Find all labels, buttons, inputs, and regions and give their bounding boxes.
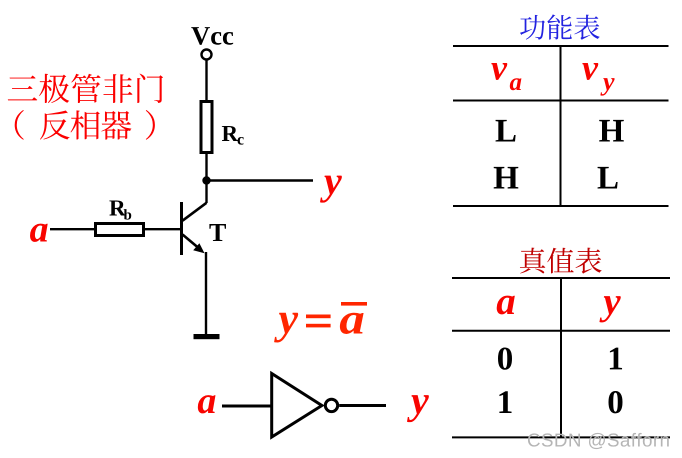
wire Vcc to Rc xyxy=(205,61,207,103)
function table title 功能表 xyxy=(520,14,600,40)
header v_y xyxy=(582,63,598,80)
Vcc power label xyxy=(191,27,233,45)
cell L (row2 col2) xyxy=(598,167,618,189)
function table top rule xyxy=(453,45,669,47)
cell H (row2 col1) xyxy=(494,167,519,189)
truth table bottom rule xyxy=(452,436,670,438)
inverter gate U1: bubble xyxy=(325,399,337,411)
function table column rule xyxy=(560,46,562,206)
cell 1 (row1 col2) xyxy=(610,348,622,370)
Vcc terminal circle xyxy=(202,50,212,60)
resistor Rc xyxy=(201,102,212,153)
caption line 1: 三极管非门 xyxy=(8,74,163,103)
label Rb xyxy=(109,200,125,215)
function table header rule xyxy=(453,100,669,102)
resistor Rb xyxy=(96,224,144,236)
label Rc xyxy=(222,126,238,141)
wire Rc to collector xyxy=(205,153,207,204)
label a (circuit input) xyxy=(30,224,48,242)
label y (gate output) xyxy=(407,395,429,422)
truth table column rule xyxy=(560,278,562,437)
function table bottom rule xyxy=(453,205,669,207)
label y (circuit output) xyxy=(320,176,342,203)
truth table header rule xyxy=(452,330,670,332)
header y xyxy=(599,296,620,322)
transistor T: emitter stroke xyxy=(183,235,199,248)
cell 0 (row2 col2) xyxy=(609,391,623,413)
caption line 2: （反相器） xyxy=(15,110,155,140)
wire gate input xyxy=(222,405,272,408)
header v_a xyxy=(491,63,507,80)
formula y = a-bar xyxy=(274,302,367,342)
watermark xyxy=(528,433,669,449)
truth table title 真值表 xyxy=(520,248,602,274)
label T xyxy=(209,224,226,241)
wire emitter to ground xyxy=(205,252,207,335)
label a (gate input) xyxy=(198,395,216,413)
header a xyxy=(497,296,515,315)
transistor T: emitter arrowhead xyxy=(193,243,204,253)
inverter gate U1: triangle xyxy=(272,374,322,438)
node: collector junction xyxy=(202,176,210,184)
cell 1 (row2 col1) xyxy=(499,391,511,413)
wire gate output xyxy=(339,404,386,407)
transistor T: collector stroke xyxy=(183,203,207,221)
truth table top rule xyxy=(452,277,670,279)
transistor T: base bar xyxy=(180,202,183,255)
cell H (row1 col2) xyxy=(599,120,624,142)
wire base input xyxy=(50,228,182,230)
wire node to output y xyxy=(207,179,314,181)
ground xyxy=(194,334,220,339)
cell L (row1 col1) xyxy=(496,120,516,142)
cell 0 (row1 col1) xyxy=(498,347,512,369)
